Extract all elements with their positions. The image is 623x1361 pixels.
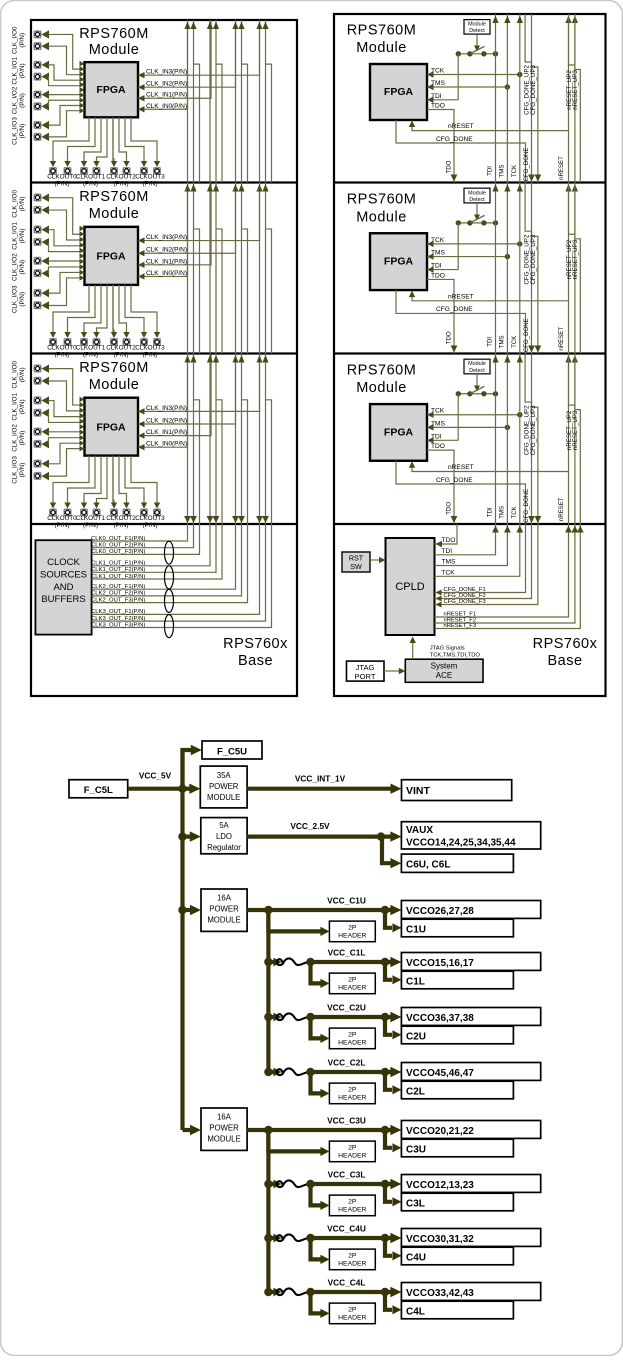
svg-text:VCC_C4U: VCC_C4U (327, 1224, 366, 1234)
svg-text:CLKOUT3: CLKOUT3 (135, 515, 165, 522)
svg-text:TMS: TMS (442, 559, 457, 566)
svg-text:RPS760M: RPS760M (347, 362, 417, 378)
svg-text:C3L: C3L (406, 1198, 425, 1209)
svg-text:CLK_IN2(P/N): CLK_IN2(P/N) (146, 247, 187, 254)
svg-text:CLKOUT2: CLKOUT2 (106, 345, 136, 352)
svg-text:TDI: TDI (442, 548, 453, 555)
svg-text:CLK_I/O1: CLK_I/O1 (12, 392, 19, 420)
svg-text:VCCO45,46,47: VCCO45,46,47 (406, 1068, 474, 1079)
svg-text:nRESET: nRESET (448, 123, 474, 130)
svg-text:VCCO26,27,28: VCCO26,27,28 (406, 906, 474, 917)
svg-text:JTAG: JTAG (356, 663, 375, 672)
svg-text:nRESET: nRESET (448, 464, 474, 471)
svg-text:VCC_C3U: VCC_C3U (327, 1116, 366, 1126)
svg-text:(P/N): (P/N) (19, 367, 26, 382)
svg-text:VCC_C4L: VCC_C4L (328, 1278, 366, 1288)
svg-text:2P: 2P (348, 1306, 357, 1313)
svg-text:CLK3_OUT_F3(P/N): CLK3_OUT_F3(P/N) (91, 622, 145, 628)
svg-text:TDI: TDI (431, 93, 442, 100)
svg-text:POWER: POWER (209, 782, 239, 791)
svg-text:(P/N): (P/N) (19, 197, 26, 212)
svg-text:2P: 2P (348, 1198, 357, 1205)
svg-text:CLKOUT0: CLKOUT0 (47, 174, 77, 181)
svg-text:nRESET: nRESET (558, 327, 565, 351)
svg-text:2P: 2P (348, 1252, 357, 1259)
svg-text:nRESET_UP3: nRESET_UP3 (572, 410, 579, 450)
svg-text:CLK_I/O3: CLK_I/O3 (12, 456, 19, 484)
svg-text:CLKOUT3: CLKOUT3 (135, 174, 165, 181)
svg-text:HEADER: HEADER (338, 1206, 366, 1213)
svg-text:Module: Module (356, 209, 407, 225)
svg-text:TMS: TMS (498, 506, 505, 519)
svg-text:VCCO15,16,17: VCCO15,16,17 (406, 958, 474, 969)
svg-text:VCC_C1U: VCC_C1U (327, 896, 366, 906)
svg-text:RPS760M: RPS760M (347, 191, 417, 207)
svg-text:TMS: TMS (498, 335, 505, 348)
svg-text:CLK_I/O3: CLK_I/O3 (12, 285, 19, 313)
svg-text:FPGA: FPGA (96, 84, 126, 96)
svg-text:TCK: TCK (511, 165, 518, 177)
svg-text:CLKOUT0: CLKOUT0 (47, 515, 77, 522)
svg-text:VCCO14,24,25,34,35,44: VCCO14,24,25,34,35,44 (406, 838, 516, 849)
svg-text:HEADER: HEADER (338, 1314, 366, 1321)
svg-text:2P: 2P (348, 1086, 357, 1093)
svg-text:Module: Module (89, 206, 140, 222)
svg-text:CLK2_OUT_F3(P/N): CLK2_OUT_F3(P/N) (91, 597, 145, 603)
svg-text:(P/N): (P/N) (19, 63, 26, 78)
svg-text:(P/N): (P/N) (19, 292, 26, 307)
svg-text:CLK_I/O2: CLK_I/O2 (12, 424, 19, 452)
svg-text:C4U: C4U (406, 1252, 426, 1263)
svg-text:RPS760M: RPS760M (79, 189, 149, 205)
svg-text:(P/N): (P/N) (19, 33, 26, 48)
svg-text:CPLD: CPLD (395, 581, 424, 593)
svg-text:nRESET_UP3: nRESET_UP3 (572, 70, 579, 110)
svg-text:VCC_C1L: VCC_C1L (328, 948, 366, 958)
svg-text:HEADER: HEADER (338, 1094, 366, 1101)
svg-text:VCCO33,42,43: VCCO33,42,43 (406, 1288, 474, 1299)
svg-text:CFG_DONE: CFG_DONE (436, 136, 473, 143)
svg-text:(P/N): (P/N) (143, 522, 158, 529)
svg-text:CLK_IN0(P/N): CLK_IN0(P/N) (146, 270, 187, 277)
svg-text:(P/N): (P/N) (19, 229, 26, 244)
svg-text:CLK_IN2(P/N): CLK_IN2(P/N) (146, 81, 187, 88)
svg-text:System: System (431, 662, 458, 671)
svg-text:FPGA: FPGA (96, 421, 126, 433)
svg-text:TDO: TDO (431, 272, 445, 279)
svg-text:CLK0_OUT_F1(P/N): CLK0_OUT_F1(P/N) (91, 536, 145, 542)
svg-text:TDI: TDI (487, 166, 494, 176)
svg-text:35A: 35A (217, 771, 232, 780)
svg-text:VCC_2.5V: VCC_2.5V (290, 821, 330, 831)
svg-text:CLKOUT0: CLKOUT0 (47, 345, 77, 352)
svg-text:CLK0_OUT_F2(P/N): CLK0_OUT_F2(P/N) (91, 543, 145, 549)
svg-text:F_C5L: F_C5L (84, 785, 113, 796)
svg-text:Base: Base (238, 653, 273, 669)
svg-text:MODULE: MODULE (207, 1135, 240, 1144)
svg-text:CLK1_OUT_F1(P/N): CLK1_OUT_F1(P/N) (91, 561, 145, 567)
svg-text:FPGA: FPGA (384, 426, 414, 438)
svg-text:CLK_IN1(P/N): CLK_IN1(P/N) (146, 258, 187, 265)
svg-text:CLKOUT1: CLKOUT1 (76, 515, 106, 522)
svg-text:CLKOUT3: CLKOUT3 (135, 345, 165, 352)
svg-text:RPS760x: RPS760x (223, 636, 288, 652)
svg-text:JTAG Signals: JTAG Signals (430, 646, 465, 652)
svg-text:CLK_I/O1: CLK_I/O1 (12, 56, 19, 84)
svg-text:16A: 16A (217, 1113, 232, 1122)
svg-text:Module: Module (89, 377, 140, 393)
svg-text:5A: 5A (219, 821, 229, 830)
svg-text:CFG_DONE_UP3: CFG_DONE_UP3 (530, 65, 537, 115)
svg-text:(P/N): (P/N) (19, 463, 26, 478)
svg-text:CLK1_OUT_F3(P/N): CLK1_OUT_F3(P/N) (91, 574, 145, 580)
svg-text:CLK_IN3(P/N): CLK_IN3(P/N) (146, 234, 187, 241)
svg-text:C6U, C6L: C6U, C6L (406, 860, 450, 871)
svg-text:TMS: TMS (498, 165, 505, 178)
svg-text:16A: 16A (217, 894, 232, 903)
svg-text:TDO: TDO (431, 103, 445, 110)
svg-text:CLK_IN3(P/N): CLK_IN3(P/N) (146, 405, 187, 412)
svg-text:POWER: POWER (209, 1124, 239, 1133)
svg-text:Detect: Detect (469, 28, 485, 34)
svg-text:C1U: C1U (406, 924, 426, 935)
svg-text:CLK_IN2(P/N): CLK_IN2(P/N) (146, 418, 187, 425)
svg-text:RPS760M: RPS760M (79, 360, 149, 376)
svg-text:Regulator: Regulator (207, 843, 241, 852)
svg-text:(P/N): (P/N) (114, 181, 129, 188)
svg-text:(P/N): (P/N) (143, 352, 158, 359)
svg-text:TDO: TDO (446, 160, 453, 173)
svg-text:Module: Module (89, 42, 140, 58)
svg-text:(P/N): (P/N) (19, 399, 26, 414)
svg-text:VAUX: VAUX (406, 825, 433, 836)
svg-text:2P: 2P (348, 1144, 357, 1151)
svg-text:CLK_I/O0: CLK_I/O0 (12, 26, 19, 54)
svg-text:TCK: TCK (511, 506, 518, 518)
svg-text:POWER: POWER (209, 905, 239, 914)
svg-text:VCC_C2U: VCC_C2U (327, 1003, 366, 1013)
svg-text:VCC_INT_1V: VCC_INT_1V (295, 773, 346, 783)
svg-text:TDI: TDI (487, 507, 494, 517)
svg-text:(P/N): (P/N) (19, 93, 26, 108)
svg-text:TCK: TCK (431, 68, 445, 75)
svg-text:HEADER: HEADER (338, 984, 366, 991)
svg-text:HEADER: HEADER (338, 932, 366, 939)
svg-text:TDO: TDO (446, 502, 453, 515)
svg-text:Module: Module (356, 40, 407, 56)
svg-text:Module: Module (468, 361, 486, 367)
svg-text:FPGA: FPGA (384, 86, 414, 98)
svg-text:(P/N): (P/N) (19, 431, 26, 446)
svg-text:RPS760M: RPS760M (347, 23, 417, 39)
svg-text:SOURCES: SOURCES (40, 569, 87, 580)
svg-text:RPS760M: RPS760M (79, 26, 149, 42)
svg-text:VCC_C3L: VCC_C3L (328, 1170, 366, 1180)
svg-text:HEADER: HEADER (338, 1152, 366, 1159)
svg-text:(P/N): (P/N) (83, 522, 98, 529)
svg-text:2P: 2P (348, 924, 357, 931)
svg-text:CLK_I/O2: CLK_I/O2 (12, 86, 19, 114)
svg-text:CFG_DONE: CFG_DONE (436, 306, 473, 313)
svg-text:CLKOUT1: CLKOUT1 (76, 345, 106, 352)
svg-text:CLK_IN0(P/N): CLK_IN0(P/N) (146, 441, 187, 448)
svg-text:CLK_IN1(P/N): CLK_IN1(P/N) (146, 429, 187, 436)
svg-text:CLK_IN0(P/N): CLK_IN0(P/N) (146, 103, 187, 110)
svg-text:BUFFERS: BUFFERS (41, 594, 85, 605)
svg-text:CLK_I/O0: CLK_I/O0 (12, 190, 19, 218)
svg-text:FPGA: FPGA (384, 256, 414, 268)
svg-text:CFG_DONE_UP3: CFG_DONE_UP3 (530, 234, 537, 284)
svg-text:(P/N): (P/N) (114, 522, 129, 529)
svg-text:TDI: TDI (487, 337, 494, 347)
svg-text:TCK: TCK (431, 408, 445, 415)
svg-text:TCK: TCK (442, 569, 456, 576)
svg-text:CLK_I/O0: CLK_I/O0 (12, 360, 19, 388)
svg-text:Module: Module (356, 380, 407, 396)
svg-text:nRESET: nRESET (558, 156, 565, 180)
svg-text:CLOCK: CLOCK (47, 557, 80, 568)
svg-text:HEADER: HEADER (338, 1260, 366, 1267)
svg-text:VCCO12,13,23: VCCO12,13,23 (406, 1180, 474, 1191)
svg-text:C1L: C1L (406, 976, 425, 987)
svg-text:TMS: TMS (431, 80, 446, 87)
svg-text:CLKOUT2: CLKOUT2 (106, 515, 136, 522)
svg-text:ACE: ACE (436, 671, 452, 680)
svg-text:CLK3_OUT_F1(P/N): CLK3_OUT_F1(P/N) (91, 609, 145, 615)
svg-text:Detect: Detect (469, 197, 485, 203)
svg-text:CFG_DONE_F3: CFG_DONE_F3 (444, 599, 486, 605)
svg-text:CLK3_OUT_F2(P/N): CLK3_OUT_F2(P/N) (91, 616, 145, 622)
svg-text:TCK: TCK (511, 336, 518, 348)
svg-text:nRESET_F3: nRESET_F3 (444, 623, 477, 629)
svg-text:(P/N): (P/N) (114, 352, 129, 359)
svg-text:(P/N): (P/N) (83, 181, 98, 188)
svg-text:TMS: TMS (431, 420, 446, 427)
svg-text:VCCO36,37,38: VCCO36,37,38 (406, 1013, 474, 1024)
svg-text:(P/N): (P/N) (83, 352, 98, 359)
svg-text:CFG_DONE_UP3: CFG_DONE_UP3 (530, 405, 537, 455)
svg-text:nRESET_UP3: nRESET_UP3 (572, 239, 579, 279)
svg-text:CLKOUT2: CLKOUT2 (106, 174, 136, 181)
svg-text:PORT: PORT (355, 672, 376, 681)
svg-text:C3U: C3U (406, 1144, 426, 1155)
svg-text:AND: AND (53, 582, 73, 593)
svg-text:C4L: C4L (406, 1306, 425, 1317)
svg-text:VCC_C2L: VCC_C2L (328, 1058, 366, 1068)
svg-text:(P/N): (P/N) (55, 181, 70, 188)
svg-text:VCCO30,31,32: VCCO30,31,32 (406, 1234, 474, 1245)
svg-text:TCK: TCK (431, 237, 445, 244)
svg-text:CLK_I/O3: CLK_I/O3 (12, 117, 19, 145)
svg-text:(P/N): (P/N) (55, 522, 70, 529)
svg-text:CLK_IN1(P/N): CLK_IN1(P/N) (146, 92, 187, 99)
svg-text:TDO: TDO (446, 331, 453, 344)
svg-text:nRESET: nRESET (558, 497, 565, 521)
svg-text:FPGA: FPGA (96, 251, 126, 263)
svg-text:(P/N): (P/N) (55, 352, 70, 359)
svg-text:MODULE: MODULE (207, 793, 240, 802)
svg-text:TMS: TMS (431, 250, 446, 257)
svg-text:CLK_IN3(P/N): CLK_IN3(P/N) (146, 69, 187, 76)
svg-text:Detect: Detect (469, 368, 485, 374)
svg-text:F_C5U: F_C5U (217, 747, 247, 758)
svg-text:TDI: TDI (431, 263, 442, 270)
svg-text:CFG_DONE: CFG_DONE (436, 477, 473, 484)
svg-text:2P: 2P (348, 976, 357, 983)
svg-text:Base: Base (547, 653, 582, 669)
svg-text:SW: SW (350, 562, 362, 571)
svg-text:(P/N): (P/N) (19, 124, 26, 139)
svg-text:C2U: C2U (406, 1031, 426, 1042)
svg-text:CLK2_OUT_F2(P/N): CLK2_OUT_F2(P/N) (91, 591, 145, 597)
svg-text:(P/N): (P/N) (19, 260, 26, 275)
svg-text:C2L: C2L (406, 1086, 425, 1097)
svg-text:CLK_I/O1: CLK_I/O1 (12, 222, 19, 250)
svg-text:LDO: LDO (216, 832, 232, 841)
svg-text:TDI: TDI (431, 433, 442, 440)
svg-text:HEADER: HEADER (338, 1039, 366, 1046)
svg-text:TDO: TDO (442, 537, 456, 544)
svg-text:Module: Module (468, 22, 486, 28)
svg-text:CLKOUT1: CLKOUT1 (76, 174, 106, 181)
svg-text:Module: Module (468, 190, 486, 196)
svg-text:VINT: VINT (406, 785, 431, 797)
svg-text:CLK1_OUT_F2(P/N): CLK1_OUT_F2(P/N) (91, 567, 145, 573)
svg-text:TCK,TMS,TDI,TDO: TCK,TMS,TDI,TDO (430, 653, 481, 659)
svg-text:TDO: TDO (431, 443, 445, 450)
svg-text:VCC_5V: VCC_5V (139, 771, 172, 781)
svg-text:CLK0_OUT_F3(P/N): CLK0_OUT_F3(P/N) (91, 549, 145, 555)
svg-text:MODULE: MODULE (207, 916, 240, 925)
svg-text:VCCO20,21,22: VCCO20,21,22 (406, 1126, 474, 1137)
svg-text:CLK2_OUT_F1(P/N): CLK2_OUT_F1(P/N) (91, 584, 145, 590)
svg-text:RPS760x: RPS760x (533, 636, 598, 652)
svg-text:(P/N): (P/N) (143, 181, 158, 188)
svg-text:nRESET: nRESET (448, 293, 474, 300)
svg-text:2P: 2P (348, 1031, 357, 1038)
svg-text:CLK_I/O2: CLK_I/O2 (12, 253, 19, 281)
